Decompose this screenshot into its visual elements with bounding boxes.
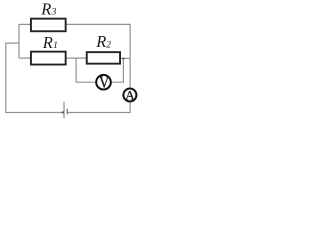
svg-text:R: R: [40, 0, 51, 18]
wire bottom right: [67, 112, 130, 114]
wire right vertical upper (corner to ammeter): [129, 24, 131, 87]
wire R3 left: [19, 23, 31, 25]
battery long plate: [63, 102, 65, 119]
svg-text:R: R: [42, 33, 53, 52]
resistor R2 box: [87, 52, 120, 64]
wire ammeter bottom vertical: [129, 103, 131, 113]
wire R1 left: [19, 57, 30, 59]
wire voltmeter left branch: [76, 58, 95, 82]
node dot voltmeter right vertical joins R2 wire: [123, 58, 125, 60]
ammeter U-A circle: [123, 89, 136, 102]
wire voltmeter right branch: [112, 58, 124, 82]
node dot R3 left terminal: [30, 23, 32, 25]
wire stub from rail to parallel junction: [5, 42, 19, 44]
svg-text:3: 3: [51, 8, 57, 18]
svg-text:V: V: [99, 73, 110, 92]
svg-text:1: 1: [53, 41, 58, 51]
node dot R1 left terminal: [30, 57, 32, 59]
wire left rail and bottom-left wire: [6, 43, 64, 112]
svg-text:R: R: [95, 32, 106, 51]
wire R2 right to right vertical: [121, 57, 130, 59]
svg-text:2: 2: [106, 39, 111, 49]
wire left junction vertical: [18, 24, 20, 58]
resistor R1 box: [31, 52, 66, 65]
resistor R3 box: [31, 19, 66, 32]
wire R1 right to R2 left: [66, 57, 86, 59]
svg-text:A: A: [125, 87, 135, 102]
battery short plate: [66, 109, 68, 114]
junction dot battery left terminal: [62, 111, 64, 113]
voltmeter U-V circle: [96, 75, 111, 90]
wire R3 right to top-right corner: [66, 23, 130, 25]
